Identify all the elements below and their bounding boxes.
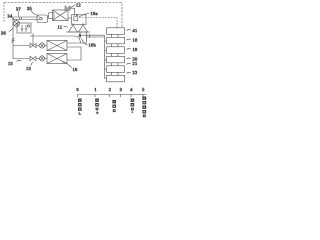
svg-text:21: 21 xyxy=(133,61,138,66)
wire: fan shaft xyxy=(70,8,75,15)
svg-text:13: 13 xyxy=(26,66,32,71)
oil separator xyxy=(49,13,55,19)
wire: leader 15 squiggle xyxy=(17,60,22,61)
wire: row1 liquid pipe xyxy=(13,45,30,47)
indoor unit box 41 xyxy=(107,28,125,35)
accumulator box xyxy=(72,15,87,25)
wire: inter-box connectors xyxy=(112,34,119,37)
indoor heat exchanger 13 xyxy=(47,41,67,51)
wire: dashed unit boundary left edge xyxy=(3,3,5,23)
svg-text:34: 34 xyxy=(8,14,14,19)
wire: liquid bus vertical xyxy=(13,27,30,59)
port flange xyxy=(76,14,78,16)
svg-text:1: 1 xyxy=(94,87,96,92)
four-way valve 34 xyxy=(16,20,18,21)
legend text column under 1 xyxy=(95,99,99,115)
check valve triangle B xyxy=(79,25,88,32)
svg-text:15: 15 xyxy=(8,61,14,66)
accumulator inner square xyxy=(74,17,78,21)
svg-text:35: 35 xyxy=(27,6,33,11)
indoor unit box 19 xyxy=(107,47,125,54)
indoor unit box 21 xyxy=(107,66,125,73)
wire: row1 to row2 U-pipe xyxy=(67,47,81,60)
wire: gas line from triangles to bus xyxy=(82,34,105,36)
indoor unit box 22 xyxy=(107,75,125,82)
expansion valve row2 xyxy=(30,56,36,60)
wire: triangle stems xyxy=(73,23,83,25)
wire: riser x33 xyxy=(32,33,34,46)
indoor unit box 18 xyxy=(107,37,125,44)
wire: leader 16b squiggle xyxy=(82,39,88,45)
wire: compressor to separator xyxy=(48,17,49,19)
svg-text:22: 22 xyxy=(133,70,138,75)
strainer symbol 1 xyxy=(21,25,24,32)
svg-text:3: 3 xyxy=(120,87,122,92)
legend text column under 0 xyxy=(78,99,82,115)
compressor 35 xyxy=(37,15,48,23)
svg-text:37: 37 xyxy=(16,7,22,12)
svg-text:4: 4 xyxy=(130,87,133,92)
timeline axis xyxy=(78,94,147,96)
wire: leader 19 squiggle xyxy=(127,49,131,50)
wire: stub below with valve 16b xyxy=(79,32,81,39)
wire: leader 21 squiggle xyxy=(127,63,131,64)
svg-text:5: 5 xyxy=(142,87,144,92)
outdoor heat exchanger 11 xyxy=(53,10,69,21)
wire: leader 36 xyxy=(9,29,13,32)
strainer symbol 2 xyxy=(25,25,28,32)
wire: row1 gas out top xyxy=(67,32,87,43)
wire: leader 11 squiggle xyxy=(64,26,68,27)
wire: leader from 34 xyxy=(13,18,15,20)
wire: baseline under triangles xyxy=(66,31,90,33)
solenoid valve 16b xyxy=(79,34,82,37)
solenoid valve row1 xyxy=(39,43,44,48)
legend text column under 5 xyxy=(142,97,146,118)
wire: upper branch line xyxy=(30,36,81,44)
svg-text:16: 16 xyxy=(73,67,79,72)
wire: leader 22 squiggle xyxy=(127,72,131,73)
svg-text:12: 12 xyxy=(76,3,81,8)
fan 12 xyxy=(65,6,70,11)
wire: dashed leader 16a to indoor box 41 xyxy=(79,18,117,29)
check valve triangle A xyxy=(69,25,78,32)
pipe break marks xyxy=(12,38,15,43)
indoor unit box 20 xyxy=(107,56,125,63)
wire: leader 16a squiggle xyxy=(79,14,90,18)
sub box under four-way valve xyxy=(17,23,31,33)
wire: leader 16 curve xyxy=(63,62,72,68)
svg-text:0: 0 xyxy=(77,87,79,92)
svg-text:16a: 16a xyxy=(91,11,98,16)
indoor heat exchanger 14 xyxy=(47,54,67,64)
wire: indoor bus vertical with stubs xyxy=(104,35,106,78)
wire: double suction/discharge pipe xyxy=(12,17,14,27)
expansion valve row1 xyxy=(30,43,36,47)
svg-text:36: 36 xyxy=(1,31,7,36)
wire: HX to accumulator xyxy=(68,17,72,19)
wire: leader 41 squiggle xyxy=(127,30,131,31)
svg-text:16b: 16b xyxy=(89,43,97,48)
wire: dashed unit boundary top, runs to indoor box 41 xyxy=(4,3,122,29)
wire: leader 13 xyxy=(31,62,33,66)
svg-text:19: 19 xyxy=(133,47,139,52)
svg-text:2: 2 xyxy=(109,87,111,92)
wire: leader from 35 to compressor xyxy=(31,11,39,16)
svg-text:41: 41 xyxy=(133,28,138,33)
legend text column under 2 xyxy=(112,100,116,112)
svg-text:18: 18 xyxy=(133,38,139,43)
wire: leader 18 squiggle xyxy=(127,39,131,40)
legend text column under 4 xyxy=(131,99,135,113)
svg-text:11: 11 xyxy=(58,25,63,30)
wire: leader 12 xyxy=(71,5,76,8)
axis ticks xyxy=(78,95,144,98)
solenoid valve row2 xyxy=(39,56,44,61)
wire: leader 20 squiggle xyxy=(127,58,131,59)
